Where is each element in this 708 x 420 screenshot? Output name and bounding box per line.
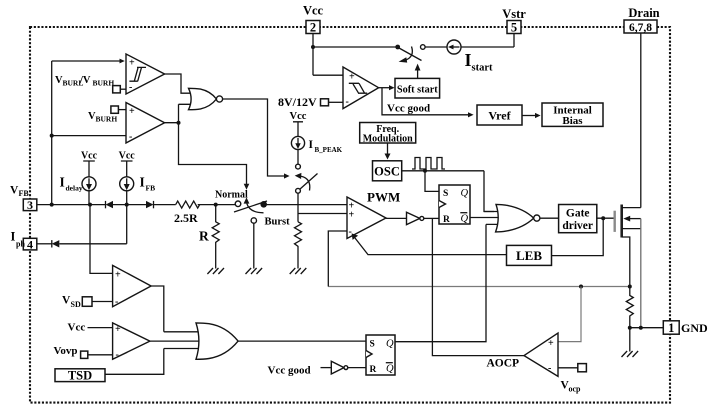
resistor 2.5R: [174, 201, 235, 225]
transistor Q1 (SenseFET): [615, 205, 641, 328]
svg-text:R: R: [199, 229, 209, 244]
wire LEB output arrow to PWM: [352, 233, 507, 254]
svg-text:Vref: Vref: [488, 109, 511, 123]
svg-text:I: I: [60, 175, 65, 190]
wire Vcc good net: [382, 88, 474, 118]
switch SW1 (startup switch): [395, 45, 425, 63]
svg-text:Q: Q: [386, 339, 394, 350]
svg-text:S: S: [443, 189, 448, 199]
Freq. Modulation block: [360, 123, 416, 145]
wire freq mod to OSC arrow: [385, 143, 391, 160]
svg-text:Vcc: Vcc: [119, 151, 136, 162]
op-amp U7 (AOCP comparator): [487, 333, 559, 376]
svg-text:+: +: [349, 72, 355, 83]
svg-text:-: -: [116, 349, 119, 360]
svg-text:SD: SD: [71, 300, 81, 309]
svg-text:+: +: [548, 338, 554, 349]
Gate driver block: [559, 205, 597, 233]
svg-text:I: I: [140, 175, 145, 190]
svg-text:+: +: [129, 57, 135, 68]
svg-text:Modulation: Modulation: [363, 134, 413, 145]
node VSD input: [62, 295, 113, 310]
svg-text:BURH: BURH: [93, 79, 115, 88]
clock waveform symbol: [412, 158, 445, 170]
svg-text:Vovp: Vovp: [54, 345, 78, 357]
current source IFB: [119, 151, 155, 205]
svg-text:Q: Q: [386, 364, 394, 375]
svg-text:Soft start: Soft start: [397, 84, 438, 95]
wire U1A output to NOR1: [165, 74, 193, 93]
Internal Bias block: [542, 103, 603, 127]
wire gate node: [552, 216, 614, 255]
svg-text:ocp: ocp: [569, 385, 582, 394]
svg-text:2.5R: 2.5R: [174, 211, 198, 225]
wire switch common to PWM: [264, 204, 347, 206]
current source Idelay: [60, 151, 98, 205]
wire SW2 to burst resistor: [297, 193, 299, 222]
pin 1 (GND): [663, 321, 708, 335]
svg-text:2: 2: [310, 21, 316, 35]
svg-text:-: -: [129, 82, 132, 93]
svg-text:1: 1: [668, 321, 674, 335]
svg-text:ph: ph: [16, 240, 25, 249]
svg-text:start: start: [472, 63, 493, 74]
node VBURL/VBURH input: [55, 75, 126, 93]
ground (burst resistor): [290, 268, 307, 274]
node Vocp input: [558, 364, 586, 394]
svg-text:driver: driver: [562, 220, 593, 232]
svg-text:-: -: [129, 131, 132, 142]
svg-text:FB: FB: [19, 189, 30, 198]
svg-text:-: -: [349, 226, 352, 237]
svg-text:4: 4: [27, 237, 33, 251]
pin 4 (Iph): [11, 230, 37, 252]
svg-text:TSD: TSD: [68, 368, 92, 382]
wire Vcc pin2 drop and branch: [311, 34, 396, 76]
current source IB_PEAK: [291, 136, 342, 164]
node VBURH input: [88, 106, 126, 124]
svg-text:Burst: Burst: [265, 217, 291, 228]
svg-text:Vcc good: Vcc good: [387, 103, 430, 115]
pin 3 (VFB): [10, 185, 37, 213]
svg-text:6,7,8: 6,7,8: [629, 22, 652, 34]
pin 2 (Vcc): [303, 4, 324, 35]
gate NOR3 (driver NOR gate): [470, 204, 559, 232]
svg-text:Vcc good: Vcc good: [268, 365, 311, 377]
wire soft start control arrow: [415, 64, 421, 79]
node 8V/12V input: [278, 95, 343, 109]
diode D2: [146, 201, 176, 208]
svg-text:Vstr: Vstr: [502, 7, 526, 21]
op-amp U3 (PWM comparator): [347, 190, 400, 239]
wire pin3 feedback line: [37, 203, 106, 207]
svg-text:+: +: [115, 269, 121, 280]
svg-text:AOCP: AOCP: [487, 358, 520, 370]
diode D3: [37, 240, 127, 247]
flip-flop U8 (protection SR latch): [366, 335, 395, 375]
current source Istart: [425, 34, 514, 74]
diode D1: [106, 201, 147, 208]
OSC block: [373, 161, 402, 181]
resistor R1: [199, 205, 219, 269]
switch SW3 (Normal/Burst): [215, 190, 290, 228]
svg-text:+: +: [129, 106, 135, 117]
op-amp U11 (Vovp comparator): [113, 323, 150, 361]
resistor R2 (burst divider): [295, 222, 302, 269]
flip-flop U5 (PWM SR latch): [439, 185, 470, 225]
wire feedback riser to pin 3: [51, 61, 53, 205]
svg-text:FB: FB: [146, 184, 156, 193]
inverter U9 (Vcc good inverter): [268, 361, 367, 376]
svg-text:Vcc: Vcc: [68, 322, 86, 334]
TSD block: [55, 349, 164, 383]
svg-text:delay: delay: [66, 184, 83, 193]
Vref block: [477, 105, 522, 125]
wire U1A plus input with arrow: [52, 59, 125, 64]
wire drain line: [640, 33, 642, 208]
svg-text:Q: Q: [461, 214, 469, 225]
node Vovp input: [54, 345, 113, 359]
wire current sense net: [328, 231, 632, 342]
svg-text:BURH: BURH: [96, 115, 118, 124]
node Vcc input to U11: [68, 322, 113, 334]
LEB block: [507, 245, 552, 265]
wire OSC output net: [402, 169, 494, 212]
op-amp U1A (burst hysteresis comparator): [126, 54, 165, 94]
wire U1B output to NOR1: [165, 104, 193, 124]
wire burst contact to ground: [253, 223, 255, 268]
svg-text:B_PEAK: B_PEAK: [315, 146, 343, 154]
op-amp U10 (VSD comparator): [90, 205, 164, 332]
wire NOR1 output to burst switch control: [223, 99, 290, 179]
svg-text:Vcc: Vcc: [81, 151, 98, 162]
op-amp U1B (burst comparator): [126, 103, 165, 144]
svg-text:I: I: [309, 139, 314, 151]
svg-text:-: -: [548, 363, 551, 374]
svg-text:Vcc: Vcc: [303, 4, 324, 18]
svg-text:I: I: [11, 230, 16, 244]
gate NOR1 (burst NOR gate): [189, 88, 223, 109]
soft start block: [395, 78, 440, 98]
svg-text:Vcc: Vcc: [290, 111, 307, 122]
svg-text:LEB: LEB: [516, 248, 542, 263]
ground (sense resistor): [622, 351, 639, 357]
node Vcc (IB_PEAK source): [290, 111, 307, 137]
svg-text:Q: Q: [461, 188, 469, 199]
wire IFB node to pin4: [126, 205, 128, 244]
svg-text:5: 5: [511, 21, 517, 35]
wire U8 Q output to NOR3: [395, 224, 486, 341]
svg-text:/V: /V: [79, 75, 91, 86]
ground (burst contact): [246, 268, 263, 274]
wire burst tap to PWM: [298, 213, 347, 215]
wire AOCP output to R net: [432, 218, 524, 355]
switch SW2 (burst peak switch): [295, 164, 318, 193]
svg-text:Gate: Gate: [566, 208, 590, 220]
svg-text:R: R: [370, 365, 377, 375]
wire U2 output to Soft start: [379, 85, 395, 90]
ground (R1): [207, 268, 224, 274]
svg-text:Bias: Bias: [562, 115, 583, 127]
wire U1B minus input: [50, 134, 126, 138]
svg-text:PWM: PWM: [367, 190, 400, 205]
svg-text:8V/12V: 8V/12V: [278, 95, 317, 109]
resistor Rsense: [626, 287, 663, 352]
svg-text:I: I: [465, 50, 472, 70]
inverter U4 (PWM output inverter): [386, 212, 439, 224]
pin 6,7,8 (Drain): [624, 6, 660, 34]
svg-text:-: -: [115, 296, 118, 307]
pin 5 (Vstr): [502, 7, 526, 35]
svg-text:Normal: Normal: [215, 190, 248, 201]
svg-text:GND: GND: [681, 321, 708, 335]
svg-text:S: S: [370, 340, 375, 350]
svg-text:R: R: [443, 215, 450, 225]
svg-text:OSC: OSC: [374, 165, 400, 179]
svg-text:+: +: [115, 324, 121, 335]
svg-text:+: +: [349, 209, 355, 220]
wire U1B control to normal switch: [179, 123, 250, 190]
op-amp U2 (8V/12V Vcc comparator): [343, 67, 379, 109]
svg-text:3: 3: [27, 198, 33, 212]
gate OR1 (shutdown OR gate): [150, 323, 366, 359]
svg-text:-: -: [346, 97, 349, 108]
svg-text:Drain: Drain: [628, 6, 659, 20]
wire Vref to Internal Bias: [522, 113, 541, 118]
